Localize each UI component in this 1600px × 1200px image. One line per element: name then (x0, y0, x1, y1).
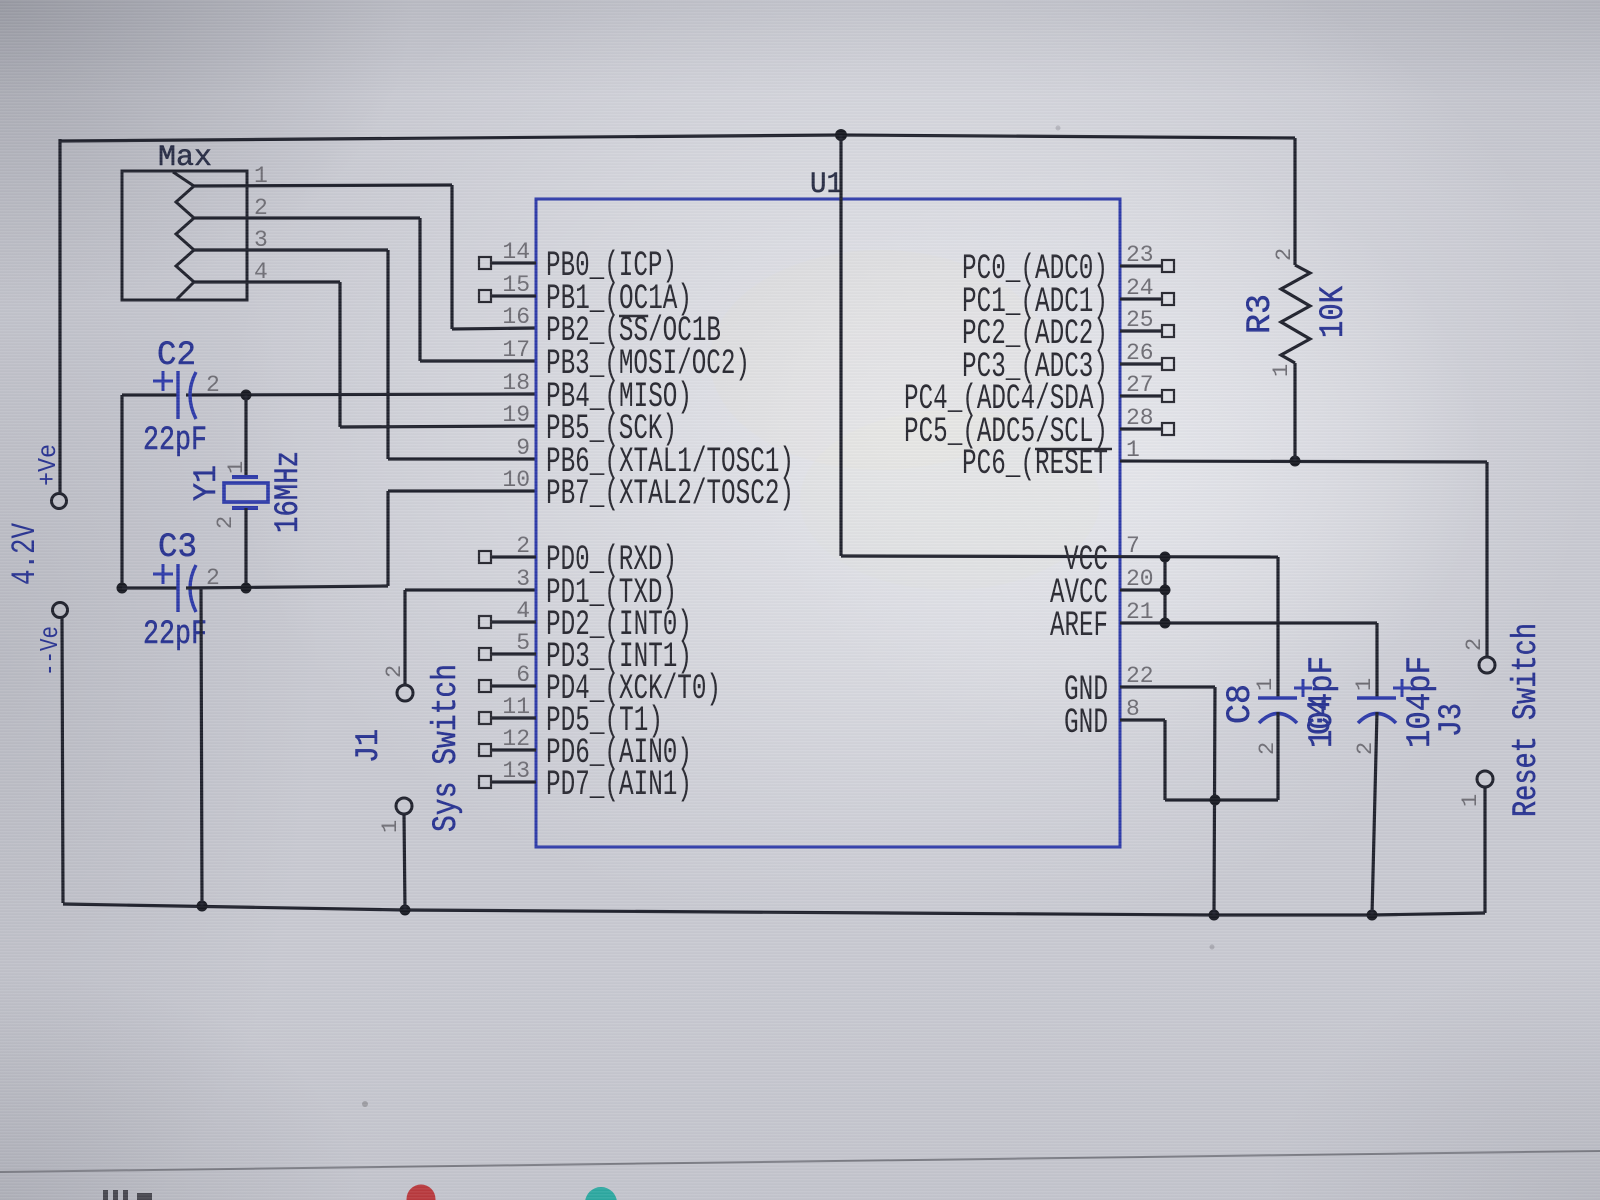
junction RESET / R3 (1290, 456, 1301, 467)
svg-text:6: 6 (516, 662, 530, 688)
svg-text:1: 1 (1253, 678, 1278, 691)
U1 pin 14 stub+number (491, 261, 536, 264)
wire R3 top stub (1293, 138, 1296, 265)
svg-text:16: 16 (502, 304, 530, 330)
svg-text:2: 2 (206, 372, 220, 398)
svg-text:18: 18 (502, 370, 530, 396)
U1 pin 15 stub+number (491, 294, 536, 297)
svg-text:17: 17 (502, 337, 530, 363)
wire ground bus bottom (63, 904, 405, 910)
svg-text:10K: 10K (1315, 286, 1353, 338)
svg-text:1: 1 (1126, 437, 1140, 463)
U1 pin 5 stub+number (491, 652, 536, 655)
svg-text:2: 2 (1353, 742, 1378, 755)
svg-text:1: 1 (224, 461, 249, 474)
connector -Ve terminal (53, 603, 68, 618)
U1 pin 24 stub+number (1120, 297, 1162, 300)
junction AVCC pin20 (1160, 585, 1171, 596)
svg-text:C3: C3 (158, 529, 197, 567)
wire J3 pin2 riser (1485, 462, 1488, 657)
svg-text:22pF: 22pF (143, 616, 207, 654)
resistor R3 zigzag (1281, 265, 1310, 363)
connector Max zigzag (173, 172, 194, 299)
wire AREF row to cap2 (1120, 621, 1377, 624)
junction C2 / Y1 pin1 (241, 390, 252, 401)
svg-text:10: 10 (502, 467, 530, 493)
svg-text:13: 13 (502, 758, 530, 784)
svg-text:R3: R3 (1242, 294, 1280, 334)
svg-text:U1: U1 (810, 168, 843, 202)
connector Max outline (122, 171, 247, 300)
wire Max pin3 to PB6 pin9 (194, 248, 388, 251)
junction GND8 route / GND22 drop (1210, 795, 1221, 806)
junction C3 / Y1 pin2 (241, 583, 252, 594)
svg-text:22: 22 (1126, 663, 1154, 689)
svg-text:19: 19 (502, 402, 530, 428)
wire C2 right to PB4 pin18 row (186, 394, 536, 395)
svg-text:4: 4 (516, 598, 530, 624)
U1 pin 28 stub+number (1120, 427, 1162, 430)
svg-text:+Ve: +Ve (33, 444, 63, 486)
taskbar small marks (103, 1190, 108, 1200)
svg-text:20: 20 (1126, 566, 1154, 592)
junction bus / C-J3 cap drop (1367, 910, 1378, 921)
wire C2 left to common (122, 393, 178, 396)
wire Y1 pin2 (244, 508, 247, 588)
connector J3 pin1 terminal (1477, 771, 1493, 787)
crystal Y1 body (232, 475, 258, 479)
capacitor C8 plus sign (1294, 687, 1312, 690)
junction bus / GND22 drop (1209, 910, 1220, 921)
connector +Ve terminal (52, 494, 67, 509)
svg-text:104pF: 104pF (1304, 656, 1342, 748)
junction top frame at U1 drop (835, 129, 847, 141)
wire C3 node down to bus (201, 588, 202, 906)
svg-text:2: 2 (382, 665, 407, 678)
wire Max pin1 to PB2 pin16 (194, 185, 452, 186)
svg-text:2: 2 (516, 533, 530, 559)
svg-text:22pF: 22pF (143, 422, 207, 460)
U1 pin 27 stub+number (1120, 394, 1162, 397)
capacitor C8 plates (1258, 696, 1297, 700)
wire VCC-AVCC-AREF tie (1163, 557, 1166, 623)
svg-text:28: 28 (1126, 405, 1154, 431)
svg-text:7: 7 (1126, 533, 1140, 559)
U1 pin 6 stub+number (491, 684, 536, 687)
wire top frame horizontal (60, 135, 841, 141)
svg-text:8: 8 (1126, 696, 1140, 722)
connector J3 pin2 terminal (1479, 657, 1495, 673)
wire -Ve vertical to ground bus (62, 618, 63, 903)
wire J1 pin1 to bus (404, 814, 405, 910)
wire C3 right to PB7 riser (186, 586, 388, 588)
svg-text:27: 27 (1126, 372, 1154, 398)
svg-text:1: 1 (1269, 364, 1294, 377)
taskbar teal dot (585, 1187, 617, 1200)
svg-text:3: 3 (516, 566, 530, 592)
wire left frame vertical to +Ve (58, 139, 61, 493)
svg-text:2: 2 (1462, 638, 1487, 651)
U1 pin 4 stub+number (491, 620, 536, 623)
svg-text:Max: Max (158, 141, 212, 175)
capacitor C-J3 plus sign (1393, 687, 1411, 690)
junction AREF pin21 (1160, 618, 1171, 629)
svg-text:15: 15 (502, 272, 530, 298)
U1 pin 2 stub+number (491, 555, 536, 558)
taskbar red dot (407, 1185, 436, 1200)
U1 pin 11 stub+number (491, 716, 536, 719)
junction common / C3 left (117, 583, 128, 594)
connector J1 pin1 terminal (396, 798, 412, 814)
svg-text:Y1: Y1 (188, 465, 225, 501)
wire Y1 pin1 (244, 395, 247, 477)
U1 pin 12 stub+number (491, 748, 536, 751)
svg-text:4.2V: 4.2V (7, 523, 45, 585)
svg-text:26: 26 (1126, 340, 1154, 366)
wire J1 pin2 to PD1 pin3 (403, 590, 406, 685)
svg-text:12: 12 (502, 726, 530, 752)
wire PB7 riser (386, 491, 389, 586)
U1 pin 13 stub+number (491, 780, 536, 783)
junction bus / C3 gnd drop (197, 901, 208, 912)
wire Max pin4 to PB5 pin19 (194, 280, 340, 283)
svg-text:5: 5 (516, 630, 530, 656)
svg-text:2: 2 (1272, 248, 1297, 261)
capacitor C3 plates (176, 564, 179, 612)
svg-text:16MHz: 16MHz (270, 451, 308, 533)
capacitor C2 plates (176, 371, 179, 419)
svg-text:9: 9 (516, 435, 530, 461)
wire C3 left (122, 586, 178, 589)
U1 pin 23 stub+number (1120, 264, 1162, 267)
wire GND8 route (1120, 718, 1165, 721)
svg-text:Reset Switch: Reset Switch (1508, 623, 1546, 817)
capacitor C2 plus sign (153, 380, 173, 383)
svg-text:GND: GND (1064, 703, 1108, 743)
svg-text:J1: J1 (350, 729, 387, 763)
svg-text:Sys Switch: Sys Switch (428, 664, 466, 832)
svg-text:14: 14 (502, 239, 530, 265)
svg-text:C2: C2 (157, 337, 196, 375)
svg-text:23: 23 (1126, 242, 1154, 268)
svg-text:1: 1 (378, 820, 403, 833)
U1 pin 25 stub+number (1120, 329, 1162, 332)
svg-text:AREF: AREF (1050, 606, 1108, 646)
svg-text:1: 1 (1352, 678, 1377, 691)
capacitor C3 plus sign (153, 573, 173, 576)
wire Max pin2 to PB3 pin17 (194, 216, 420, 219)
wire cap2 bottom to bus (1372, 712, 1377, 915)
junction bus / J1 pin1 (400, 905, 411, 916)
wire VCC drop from top frame (839, 135, 842, 556)
wire RESET row to J3 (1120, 461, 1487, 462)
wire common vertical C2-C3 (120, 395, 123, 588)
wire cap2 top (1375, 623, 1378, 697)
screen bezel diagonal line (0, 1151, 1600, 1172)
svg-text:PB7_(XTAL2/TOSC2): PB7_(XTAL2/TOSC2) (546, 474, 794, 514)
wire GND22 to bus (1120, 685, 1215, 688)
svg-text:24: 24 (1126, 275, 1154, 301)
svg-text:21: 21 (1126, 599, 1154, 625)
U1 pin 26 stub+number (1120, 362, 1162, 365)
wire cap C8 top (1276, 557, 1279, 697)
wire R3 bottom stub (1293, 363, 1296, 461)
connector J1 pin2 terminal (397, 685, 413, 701)
capacitor C-J3 plates (1357, 696, 1396, 700)
wire J3 pin1 to bus (1483, 787, 1486, 913)
svg-text:2: 2 (213, 516, 238, 529)
svg-text:PD7_(AIN1): PD7_(AIN1) (546, 765, 692, 805)
svg-text:2: 2 (1255, 742, 1280, 755)
IC U1 ATmega outline (536, 199, 1120, 847)
wire cap C8 bottom (1276, 712, 1279, 800)
svg-text:J3: J3 (1433, 703, 1470, 737)
wire AVCC stub (1120, 588, 1165, 591)
junction VCC pin7 (1160, 552, 1171, 563)
svg-text:11: 11 (502, 694, 530, 720)
svg-text:1: 1 (1458, 794, 1483, 807)
svg-text:25: 25 (1126, 307, 1154, 333)
